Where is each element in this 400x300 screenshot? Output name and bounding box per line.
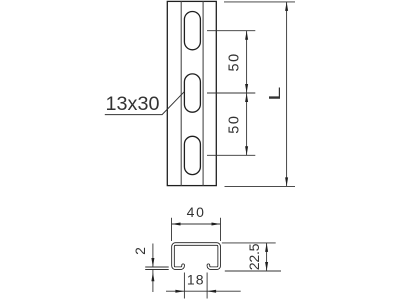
slot 1 (13x30) [184, 12, 200, 50]
arrow 2 lower up [151, 272, 154, 281]
leader 13x30 [105, 92, 185, 115]
extension line slot2 center [207, 92, 255, 94]
svg-text:18: 18 [187, 272, 205, 288]
arrow 22.5 top [265, 243, 268, 252]
arrow 22.5 bottom [265, 262, 268, 271]
dimension line 22.5 [266, 243, 268, 271]
arrow L bottom [285, 177, 288, 186]
extension line L top [224, 1, 295, 3]
fold line right [202, 1, 204, 185]
arrow L top [285, 2, 288, 11]
cross-section sheet (double line) [173, 244, 219, 268]
extension line 40 left [171, 218, 173, 241]
slot 2 (13x30) [184, 74, 200, 112]
extension line 18 left [183, 273, 185, 299]
dimension line 18 [166, 290, 241, 292]
dimension line 40 [172, 223, 221, 225]
svg-text:L: L [266, 87, 284, 101]
svg-text:50: 50 [226, 52, 242, 71]
svg-text:22.5: 22.5 [247, 243, 263, 270]
svg-text:2: 2 [132, 247, 148, 255]
extension line 40 right [220, 218, 222, 241]
extension line slot3 center [207, 154, 255, 156]
slot 3 (13x30) [184, 136, 200, 174]
svg-text:40: 40 [187, 204, 206, 220]
arrow 50 mid up [245, 93, 248, 102]
extension line 2 upper [145, 266, 169, 268]
dimension line L [286, 2, 288, 187]
arrow 40 left [172, 223, 181, 226]
arrow 18 left [175, 290, 184, 293]
extension line 18 right [206, 273, 208, 299]
arrow 40 right [212, 223, 221, 226]
svg-text:50: 50 [226, 114, 242, 133]
arrow 18 right [207, 290, 216, 293]
dimension line 2 upper tail [152, 244, 154, 268]
arrow 50 mid down [245, 84, 248, 93]
arrow 50 top up [245, 31, 248, 40]
extension line 22.5 top [222, 242, 276, 244]
dimension line 50/50 [246, 31, 248, 156]
rail body (front view outline) [167, 1, 216, 185]
extension line 2 lower [145, 269, 169, 271]
dimension line 2 lower tail [152, 270, 154, 293]
extension line 22.5 bottom [225, 270, 281, 272]
arrow 50 bottom down [245, 146, 248, 155]
extension line slot1 center [207, 30, 255, 32]
extension line L bottom [225, 185, 296, 187]
svg-text:13x30: 13x30 [106, 93, 160, 115]
fold line left [180, 1, 182, 185]
arrow 2 upper down [151, 258, 154, 267]
